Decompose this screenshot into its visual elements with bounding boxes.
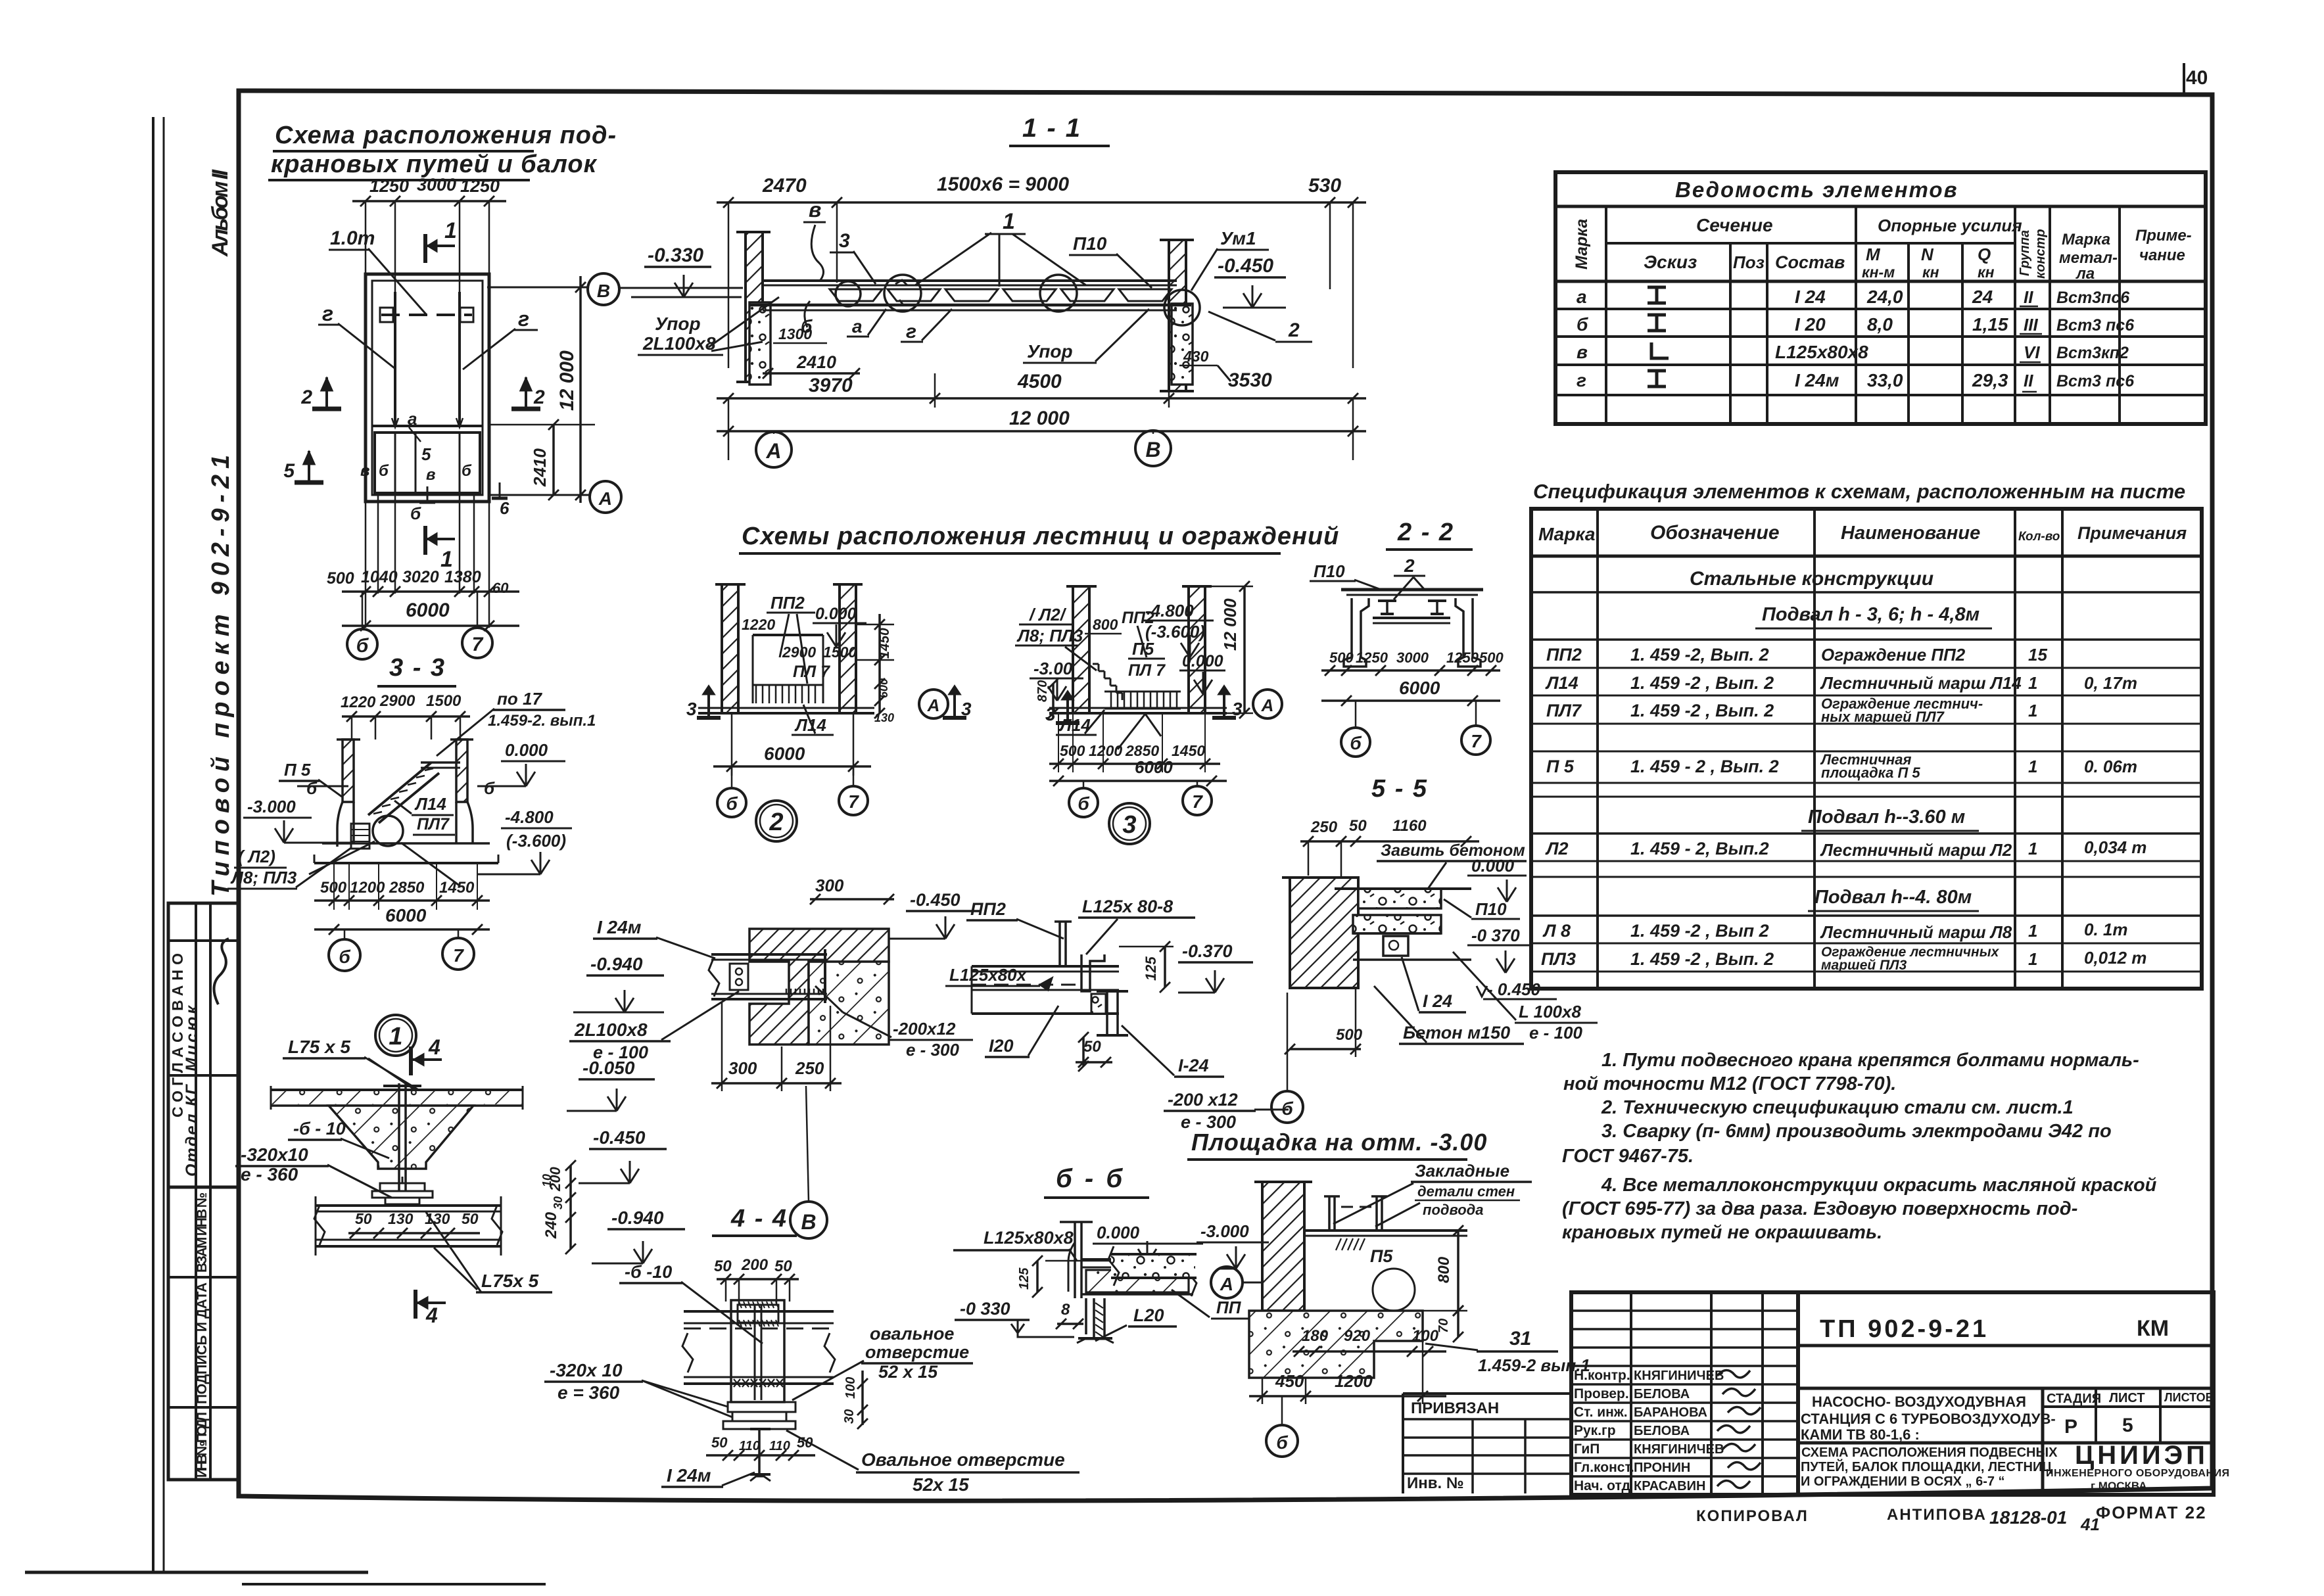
grid circles б 7 3-3 <box>329 939 360 971</box>
vert dim 125 rail detail <box>1164 947 1166 987</box>
svg-text:Группа: Группа <box>2018 230 2032 276</box>
mark 3 right sec3 + circle А <box>1223 689 1225 718</box>
plan right dimension 12000 <box>489 424 595 426</box>
svg-text:П10: П10 <box>1475 899 1507 919</box>
svg-text:Л14: Л14 <box>1545 673 1578 693</box>
svg-text:П10: П10 <box>1073 233 1107 254</box>
weld x-marks 4-4 <box>734 1379 740 1387</box>
svg-text:А: А <box>927 695 940 715</box>
svg-text:Провер.: Провер. <box>1574 1386 1629 1401</box>
svg-text:2410: 2410 <box>530 448 550 487</box>
binding edge lines <box>152 117 154 1572</box>
svg-text:15: 15 <box>2028 645 2047 665</box>
svg-text:I-24: I-24 <box>1178 1056 1209 1075</box>
svg-text:кн: кн <box>1978 264 1995 281</box>
svg-text:ла: ла <box>2075 265 2095 283</box>
section 2-2 walls <box>1344 598 1369 667</box>
beam channel 5-5 <box>1383 936 1408 956</box>
svg-text:Кол-во: Кол-во <box>2018 530 2060 544</box>
svg-text:П 5: П 5 <box>1546 757 1575 776</box>
title block staff table <box>1571 1292 1798 1495</box>
svg-text:НАСОСНО- ВОЗДУХОДУВНАЯ: НАСОСНО- ВОЗДУХОДУВНАЯ <box>1812 1394 2026 1410</box>
svg-text:Наименование: Наименование <box>1841 523 1980 544</box>
svg-text:6000: 6000 <box>1135 757 1173 777</box>
svg-text:б: б <box>410 504 421 523</box>
svg-text:12 000: 12 000 <box>556 350 578 411</box>
svg-text:А: А <box>1220 1274 1233 1294</box>
svg-text:б: б <box>484 778 495 798</box>
svg-text:б: б <box>1577 314 1588 335</box>
svg-text:50: 50 <box>711 1434 728 1451</box>
svg-text:а: а <box>1577 287 1587 307</box>
svg-text:60: 60 <box>492 580 509 596</box>
gusset vertical plate 4-4 <box>731 1300 784 1402</box>
bolt plates detail1 <box>380 1183 425 1191</box>
svg-text:5: 5 <box>2122 1415 2133 1436</box>
svg-text:I 20: I 20 <box>1795 314 1826 335</box>
dim 6000 sec2 <box>731 713 733 776</box>
monorail crane dashed symbol 1.0т <box>381 314 472 316</box>
svg-text:250: 250 <box>795 1058 824 1078</box>
svg-text:29,3: 29,3 <box>1972 370 2008 390</box>
hatch marks under floor platform <box>1336 1238 1341 1250</box>
svg-text:1: 1 <box>2028 673 2037 693</box>
table Ведомость элементов frame <box>1555 172 2206 424</box>
svg-text:1200: 1200 <box>350 879 385 897</box>
svg-text:Спецификация элементов к схе: Спецификация элементов к схемам, располо… <box>1533 480 2185 503</box>
svg-text:L 100х8: L 100х8 <box>1519 1002 1581 1021</box>
svg-text:10: 10 <box>540 1174 554 1187</box>
svg-text:3: 3 <box>1122 811 1136 839</box>
svg-text:по 17: по 17 <box>497 689 542 709</box>
section 2-2 crane bottom member <box>1373 617 1450 619</box>
svg-text:-0.940: -0.940 <box>611 1208 664 1228</box>
svg-text:ТП 902-9-21: ТП 902-9-21 <box>1820 1315 1989 1343</box>
svg-text:ПЛ 7: ПЛ 7 <box>793 663 830 681</box>
svg-text:Л8; ПЛ3: Л8; ПЛ3 <box>1016 626 1083 645</box>
svg-text:500: 500 <box>327 569 354 588</box>
svg-text:1500: 1500 <box>426 692 462 710</box>
svg-text:детали стен: детали стен <box>1417 1183 1515 1200</box>
svg-text:е = 360: е = 360 <box>557 1382 620 1403</box>
svg-text:-0.450: -0.450 <box>1218 255 1273 277</box>
svg-text:б: б <box>1078 793 1089 814</box>
svg-text:0,012 т: 0,012 т <box>2084 948 2146 968</box>
svg-text:ПП2: ПП2 <box>1546 645 1582 665</box>
stair plan small 3-3 <box>351 824 369 849</box>
svg-text:240: 240 <box>542 1211 560 1239</box>
svg-text:В: В <box>801 1210 816 1234</box>
svg-text:30: 30 <box>842 1409 857 1424</box>
svg-text:2850: 2850 <box>389 879 425 897</box>
section mark 2 right <box>511 407 540 411</box>
svg-text:Лестничный марш Л8: Лестничный марш Л8 <box>1820 922 2012 942</box>
svg-text:40: 40 <box>2186 67 2208 89</box>
svg-text:3970: 3970 <box>809 375 853 396</box>
rail beam detail1 <box>316 1204 501 1207</box>
svg-text:1450: 1450 <box>1172 742 1205 759</box>
svg-text:Приме-: Приме- <box>2135 227 2192 245</box>
railing treads sec3 <box>1104 691 1181 693</box>
bottom partial line <box>25 1571 368 1574</box>
svg-text:-0 370: -0 370 <box>1471 926 1520 945</box>
svg-text:Площадка на отм. -3.00: Площадка на отм. -3.00 <box>1191 1129 1487 1156</box>
svg-text:ГиП: ГиП <box>1574 1442 1600 1457</box>
svg-text:Р: Р <box>2064 1416 2077 1438</box>
plan bottom grid of beams <box>372 425 483 427</box>
stair plan 2 floor lines <box>698 712 874 715</box>
svg-text:130: 130 <box>874 711 894 724</box>
plan right dimension 2410 <box>552 425 555 495</box>
svg-text:1450: 1450 <box>439 879 475 897</box>
svg-text:а: а <box>852 316 863 337</box>
svg-text:Подвал h--3.60 м: Подвал h--3.60 м <box>1808 807 1965 828</box>
svg-text:СТАНЦИЯ С 6 ТУРБОВОЗДУХОДУВ-: СТАНЦИЯ С 6 ТУРБОВОЗДУХОДУВ- <box>1801 1411 2056 1427</box>
stair plan 3 right wall <box>1189 586 1205 713</box>
svg-text:8: 8 <box>1061 1301 1070 1319</box>
svg-text:100: 100 <box>1412 1327 1439 1345</box>
svg-text:СХЕМА РАСПОЛОЖЕНИЯ ПОДВЕСНЫХ: СХЕМА РАСПОЛОЖЕНИЯ ПОДВЕСНЫХ <box>1801 1445 2058 1460</box>
svg-text:7: 7 <box>1192 791 1203 812</box>
svg-text:1040: 1040 <box>361 568 398 586</box>
channel C20 6-6 <box>1085 1298 1087 1334</box>
left stamp box ВЗАМ ИНВ / ПОДПИСЬ / ИНВ <box>168 1187 239 1480</box>
svg-text:-320х10: -320х10 <box>241 1144 308 1165</box>
svg-text:3: 3 <box>686 699 697 719</box>
svg-text:920: 920 <box>1344 1327 1371 1345</box>
svg-text:Обозначение: Обозначение <box>1650 522 1780 544</box>
svg-text:1250: 1250 <box>369 176 409 196</box>
svg-text:ных маршей ПЛ7: ных маршей ПЛ7 <box>1821 709 1945 725</box>
svg-text:Сечение: Сечение <box>1696 215 1773 235</box>
svg-text:1380: 1380 <box>444 568 481 586</box>
svg-text:I 24: I 24 <box>1423 991 1452 1011</box>
svg-text:-200 х12: -200 х12 <box>1168 1090 1238 1110</box>
svg-text:А: А <box>1261 695 1274 715</box>
rail post <box>1058 922 1061 966</box>
svg-text:1250: 1250 <box>460 176 500 196</box>
foundation concrete platform <box>1249 1311 1423 1378</box>
svg-text:ПРИВЯЗАН: ПРИВЯЗАН <box>1411 1399 1499 1417</box>
svg-text:7: 7 <box>453 945 464 966</box>
svg-text:1: 1 <box>2028 839 2037 858</box>
right wall 3-3 <box>456 739 467 802</box>
svg-text:2470: 2470 <box>762 175 807 197</box>
stair flight 3-3 <box>368 763 431 815</box>
svg-text:ПЛ3: ПЛ3 <box>1541 949 1576 969</box>
svg-text:300: 300 <box>815 876 844 895</box>
svg-text:-3.000: -3.000 <box>247 797 296 816</box>
footing 3-3 <box>322 842 490 845</box>
grid circles б 7 2-2 <box>1341 728 1370 757</box>
svg-text:овальное: овальное <box>870 1324 954 1344</box>
slab panels П10 trapezoids <box>830 289 882 301</box>
svg-text:БЕЛОВА: БЕЛОВА <box>1634 1387 1690 1401</box>
data rows Ведомость <box>1555 308 2206 310</box>
svg-text:1: 1 <box>2028 701 2037 720</box>
svg-text:4: 4 <box>428 1035 440 1059</box>
svg-text:Нач. отд: Нач. отд <box>1574 1478 1630 1493</box>
svg-text:8,0: 8,0 <box>1867 314 1893 335</box>
svg-text:0.000: 0.000 <box>1182 652 1223 670</box>
svg-text:-200х12: -200х12 <box>893 1019 956 1039</box>
svg-text:И ОГРАЖДЕНИИ В ОСЯХ „ 6-7 “: И ОГРАЖДЕНИИ В ОСЯХ „ 6-7 “ <box>1801 1474 2005 1489</box>
svg-text:2 - 2: 2 - 2 <box>1397 519 1454 546</box>
svg-text:52 х 15: 52 х 15 <box>878 1362 938 1382</box>
svg-text:Стальные конструкции: Стальные конструкции <box>1690 568 1933 590</box>
svg-text:-б -10: -б -10 <box>625 1262 672 1282</box>
svg-text:ФОРМАТ 22: ФОРМАТ 22 <box>2096 1503 2207 1522</box>
svg-text:б: б <box>1350 733 1362 753</box>
angle and I-beam assembly rail detail <box>1081 954 1104 991</box>
floor slabs concrete 5-5 <box>1358 889 1441 908</box>
stadia list columns <box>2095 1388 2097 1443</box>
svg-text:0. 1т: 0. 1т <box>2084 920 2128 939</box>
oval hole pad top 4-4 <box>738 1305 778 1323</box>
svg-text:г: г <box>1577 370 1586 390</box>
svg-text:300: 300 <box>728 1058 757 1078</box>
sheet frame <box>239 91 2212 1501</box>
svg-text:-0.450: -0.450 <box>593 1127 646 1148</box>
svg-text:-0 330: -0 330 <box>960 1299 1010 1319</box>
svg-text:КНЯГИНИЧЕВ: КНЯГИНИЧЕВ <box>1634 1369 1724 1383</box>
svg-text:I 24м: I 24м <box>1795 370 1839 390</box>
svg-text:-0.940: -0.940 <box>590 954 643 974</box>
vert dim 12000 sec3 <box>1243 586 1246 713</box>
grid circle А <box>756 432 792 467</box>
svg-text:БЕЛОВА: БЕЛОВА <box>1634 1424 1690 1438</box>
grid circles б 7 sec2 <box>717 788 746 817</box>
svg-text:е - 360: е - 360 <box>241 1164 298 1185</box>
svg-text:2900: 2900 <box>782 644 816 661</box>
svg-text:125: 125 <box>1143 956 1159 981</box>
svg-text:Лестничный марш Л2: Лестничный марш Л2 <box>1820 840 2012 860</box>
svg-text:-0.330: -0.330 <box>648 245 703 266</box>
svg-text:1,15: 1,15 <box>1972 314 2008 335</box>
svg-text:Ведомость элементов: Ведомость элементов <box>1675 177 1958 202</box>
grid circles б 7 sec3 <box>1069 788 1098 817</box>
stair plan 2 left wall <box>722 584 738 713</box>
svg-text:П 5: П 5 <box>284 760 311 780</box>
svg-text:ПЛ7: ПЛ7 <box>417 815 450 833</box>
svg-text:е - 300: е - 300 <box>906 1040 959 1060</box>
svg-text:2: 2 <box>1404 555 1415 576</box>
svg-text:70: 70 <box>1436 1319 1451 1333</box>
svg-text:1500: 1500 <box>823 644 857 661</box>
svg-text:600: 600 <box>877 678 890 698</box>
svg-text:-320х 10: -320х 10 <box>550 1360 623 1380</box>
svg-text:III: III <box>2024 315 2038 335</box>
svg-text:Вст3кп2: Вст3кп2 <box>2056 344 2129 362</box>
svg-text:Ст. инж.: Ст. инж. <box>1574 1405 1628 1420</box>
svg-text:Л 8: Л 8 <box>1542 921 1571 941</box>
svg-text:3020: 3020 <box>402 568 439 586</box>
svg-text:кн-м: кн-м <box>1862 264 1895 281</box>
svg-text:маршей ПЛ3: маршей ПЛ3 <box>1821 958 1907 973</box>
svg-text:2. Техническую спецификацию: 2. Техническую спецификацию стали см. ли… <box>1601 1097 2074 1118</box>
svg-text:КНЯГИНИЧЕВ: КНЯГИНИЧЕВ <box>1634 1442 1724 1457</box>
svg-text:Марка: Марка <box>1538 524 1595 544</box>
svg-text:1300: 1300 <box>778 325 812 342</box>
svg-text:500: 500 <box>1329 649 1354 666</box>
svg-text:50: 50 <box>1349 817 1367 835</box>
svg-text:0.000: 0.000 <box>1471 856 1515 876</box>
stair plan 3 floor lines <box>1049 712 1227 715</box>
right vert dims sec2 <box>878 614 881 713</box>
svg-text:Овальное отверстие: Овальное отверстие <box>861 1449 1065 1470</box>
svg-text:50: 50 <box>1083 1038 1101 1056</box>
grid circle А 6-6 <box>1211 1267 1243 1298</box>
svg-text:Л2: Л2 <box>1545 839 1569 858</box>
svg-text:/ Л2/: / Л2/ <box>1029 605 1067 624</box>
mark 3 left sec2 <box>707 689 710 718</box>
svg-text:2: 2 <box>300 387 312 408</box>
svg-text:Марка: Марка <box>2062 231 2110 248</box>
svg-text:ВЗАМ ИНВ №: ВЗАМ ИНВ № <box>195 1192 210 1273</box>
svg-text:1250: 1250 <box>1356 649 1388 666</box>
svg-text:II: II <box>2024 371 2033 390</box>
svg-text:30: 30 <box>552 1196 565 1209</box>
svg-text:б - б: б - б <box>1056 1164 1125 1193</box>
svg-text:-0.050: -0.050 <box>582 1058 635 1078</box>
concrete mass detail В <box>809 962 889 1044</box>
svg-text:ПРОНИН: ПРОНИН <box>1634 1461 1690 1475</box>
svg-text:I 24м: I 24м <box>667 1465 711 1486</box>
svg-text:Закладные: Закладные <box>1415 1161 1509 1181</box>
section 2-2 top runway beam <box>1341 588 1483 592</box>
svg-text:2: 2 <box>769 809 783 836</box>
svg-text:В: В <box>597 281 610 301</box>
svg-text:-3.000: -3.000 <box>1200 1221 1249 1241</box>
svg-text:180: 180 <box>1302 1327 1329 1345</box>
svg-text:крановых путей и балок: крановых путей и балок <box>271 151 598 178</box>
left wall section hatched <box>746 232 763 382</box>
stair plan 3 left wall <box>1073 586 1089 713</box>
svg-text:в: в <box>1577 342 1588 362</box>
svg-text:1200: 1200 <box>1335 1371 1373 1391</box>
svg-text:L125х80х: L125х80х <box>949 965 1028 985</box>
svg-text:3000: 3000 <box>1396 649 1429 666</box>
svg-text:П5: П5 <box>1370 1246 1393 1266</box>
svg-text:1: 1 <box>2028 921 2037 941</box>
svg-text:500: 500 <box>1336 1026 1363 1044</box>
grid circle А far left <box>590 481 621 513</box>
svg-text:Рук.гр: Рук.гр <box>1574 1423 1616 1438</box>
svg-text:Вст3 пс6: Вст3 пс6 <box>2056 372 2135 390</box>
svg-text:3: 3 <box>839 230 850 252</box>
svg-text:Состав: Состав <box>1775 252 1845 272</box>
svg-text:-4.800: -4.800 <box>505 807 554 827</box>
svg-text:4 - 4: 4 - 4 <box>730 1205 788 1232</box>
I beam I24м 4-4 <box>750 1428 771 1430</box>
svg-text:52х 15: 52х 15 <box>913 1474 969 1495</box>
svg-text:Схемы расположения лестниц и: Схемы расположения лестниц и ограждений <box>742 523 1339 550</box>
svg-text:200: 200 <box>741 1256 769 1274</box>
svg-text:0. 06т: 0. 06т <box>2084 757 2137 776</box>
svg-text:Ум1: Ум1 <box>1220 228 1256 248</box>
svg-text:6000: 6000 <box>764 743 805 764</box>
svg-text:ПП: ПП <box>1216 1298 1242 1317</box>
svg-text:ЛИСТ: ЛИСТ <box>2109 1391 2145 1405</box>
svg-text:430: 430 <box>1183 348 1209 365</box>
table Ведомость header rows <box>1605 206 1607 424</box>
svg-text:Примечания: Примечания <box>2077 523 2187 543</box>
svg-text:0.000: 0.000 <box>505 740 548 760</box>
svg-text:ЦНИИЭП: ЦНИИЭП <box>2075 1441 2208 1470</box>
svg-text:4. Все металлоконструкции ок: 4. Все металлоконструкции окрасить масля… <box>1601 1175 2157 1196</box>
svg-text:3 - 3: 3 - 3 <box>389 654 446 682</box>
ceiling slab detail1 <box>271 1089 523 1091</box>
svg-text:ПП2: ПП2 <box>1122 609 1154 627</box>
svg-text:50: 50 <box>714 1257 732 1275</box>
bolt detail circles <box>836 281 861 306</box>
angle post 6-6 <box>1074 1222 1076 1298</box>
svg-text:Лестничный марш Л14: Лестничный марш Л14 <box>1820 673 2022 693</box>
svg-text:530: 530 <box>1308 175 1341 197</box>
svg-text:50: 50 <box>774 1257 792 1275</box>
svg-text:N: N <box>1921 245 1934 264</box>
svg-text:L125х 80-8: L125х 80-8 <box>1082 897 1173 916</box>
svg-text:3530: 3530 <box>1228 369 1272 391</box>
svg-text:3: 3 <box>961 699 972 719</box>
svg-text:2: 2 <box>1288 319 1300 341</box>
svg-text:50: 50 <box>355 1210 372 1227</box>
svg-text:12 000: 12 000 <box>1009 408 1070 429</box>
svg-text:ПОДПИСЬ И ДАТА: ПОДПИСЬ И ДАТА <box>195 1282 210 1404</box>
svg-text:Бетон м150: Бетон м150 <box>1403 1023 1510 1043</box>
ceiling slab hatched detail В <box>749 929 889 1044</box>
svg-text:130: 130 <box>425 1210 450 1227</box>
svg-text:1250: 1250 <box>1446 649 1479 666</box>
svg-text:чание: чание <box>2139 246 2185 264</box>
svg-text:6: 6 <box>500 498 510 518</box>
spec table rows подвал 3,6-4,8 <box>1531 667 2202 669</box>
svg-text:1. Пути подвесного крана кр: 1. Пути подвесного крана крепятся болтам… <box>1601 1050 2139 1071</box>
svg-text:б: б <box>339 947 350 967</box>
svg-text:II: II <box>2024 287 2033 307</box>
svg-text:4500: 4500 <box>1017 371 1062 392</box>
svg-text:1.0т: 1.0т <box>330 227 375 249</box>
svg-text:Инв. №: Инв. № <box>1407 1474 1464 1492</box>
svg-text:24: 24 <box>1972 287 1993 307</box>
svg-text:ЛИСТОВ: ЛИСТОВ <box>2164 1391 2214 1404</box>
svg-text:50: 50 <box>462 1210 479 1227</box>
svg-text:4: 4 <box>425 1303 438 1327</box>
section 2-2 rail I sections <box>1378 599 1396 602</box>
plan outer wall rectangle <box>366 274 489 502</box>
suspended crane runway beams <box>763 279 1177 282</box>
svg-text:250: 250 <box>1310 818 1338 836</box>
svg-text:L125х80х8: L125х80х8 <box>984 1228 1074 1248</box>
svg-text:б: б <box>462 462 472 480</box>
stair plan 2 right wall <box>840 584 856 713</box>
svg-text:6000: 6000 <box>385 905 427 926</box>
svg-text:1: 1 <box>444 218 457 243</box>
svg-text:Подвал h--4. 80м: Подвал h--4. 80м <box>1814 887 1972 908</box>
svg-text:450: 450 <box>1275 1371 1304 1391</box>
platform floor and posts <box>1304 1229 1467 1232</box>
svg-text:5: 5 <box>283 460 295 482</box>
svg-text:Л8; ПЛ3: Л8; ПЛ3 <box>230 868 297 887</box>
svg-text:L75 х 5: L75 х 5 <box>288 1037 350 1057</box>
svg-text:7: 7 <box>1471 731 1482 751</box>
svg-text:а: а <box>408 409 417 429</box>
table Спецификация header <box>1531 555 2202 558</box>
svg-text:1. 459 -2 , Вып. 2: 1. 459 -2 , Вып. 2 <box>1630 949 1774 969</box>
svg-text:А: А <box>765 439 781 463</box>
svg-text:Эскиз: Эскиз <box>1644 252 1697 272</box>
svg-text:г МОСКВА: г МОСКВА <box>2091 1480 2147 1492</box>
